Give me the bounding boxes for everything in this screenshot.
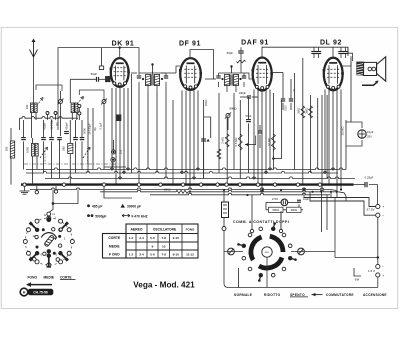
svg-text:10-185pF: 10-185pF xyxy=(50,118,54,130)
svg-text:FONO: FONO xyxy=(186,228,195,232)
svg-text:5-6: 5-6 xyxy=(150,252,155,256)
capacitor x260 xyxy=(258,130,262,132)
wires left verticals extra xyxy=(87,108,89,173)
wire T1 to DF91 grid xyxy=(176,66,180,73)
svg-text:25V: 25V xyxy=(367,135,372,139)
oscillator coil L2 xyxy=(68,144,73,154)
rotary switch S2 accensione xyxy=(262,247,272,257)
svg-text:510: 510 xyxy=(119,149,123,154)
tuning cap C1 dashed arrow xyxy=(40,147,48,158)
svg-text:5000µF: 5000µF xyxy=(95,214,106,218)
svg-text:10-185pF: 10-185pF xyxy=(88,123,92,135)
T1 tuning stub xyxy=(152,65,154,75)
legend 30000pF xyxy=(121,204,125,208)
direction arrow xyxy=(27,284,52,286)
svg-text:1-2: 1-2 xyxy=(129,252,134,256)
svg-text:465 µF: 465 µF xyxy=(92,205,102,209)
switch stem xyxy=(266,257,268,287)
tube DAF91 internal electrodes xyxy=(258,62,266,64)
tube DF91 envelope xyxy=(180,58,201,90)
tone arrow xyxy=(362,83,377,86)
S1 top stem xyxy=(47,212,51,216)
wire 1.5V plus down xyxy=(377,277,379,287)
cell contact circle xyxy=(222,227,226,231)
resistor zigzag x219 xyxy=(217,149,221,159)
svg-text:15.5KΩ: 15.5KΩ xyxy=(341,126,345,135)
svg-text:5000: 5000 xyxy=(286,105,288,111)
svg-text:2 MΩ: 2 MΩ xyxy=(221,137,225,144)
ground bus thick xyxy=(21,183,354,185)
svg-text:1.5 V: 1.5 V xyxy=(368,269,375,273)
svg-text:0.1µF: 0.1µF xyxy=(99,122,103,129)
logo emblem xyxy=(20,288,28,296)
resistor 0.5M volume xyxy=(238,134,242,150)
rail 1 xyxy=(26,168,346,170)
svg-text:50pF: 50pF xyxy=(227,51,234,55)
wires DL92 pins xyxy=(324,90,326,174)
legend MF 470 xyxy=(122,214,130,217)
svg-text:1000: 1000 xyxy=(26,147,30,153)
electrolytic capacitor 10uF 25V xyxy=(346,122,362,128)
svg-text:RIDOTTO: RIDOTTO xyxy=(264,293,281,297)
junction dots lower rails xyxy=(246,194,248,196)
S1 bottom stem xyxy=(47,249,51,253)
S1 inner contacts xyxy=(35,235,38,238)
svg-text:MOD: MOD xyxy=(265,252,270,254)
svg-text:300: 300 xyxy=(5,146,9,151)
wires DK91 pins xyxy=(111,88,113,170)
trimmer arrow L1 xyxy=(37,98,44,107)
S1 rotor wedge xyxy=(44,235,55,247)
tuning cap C2 dashed arrow xyxy=(83,147,90,158)
svg-text:NORMALE: NORMALE xyxy=(234,293,252,297)
osc pin circles xyxy=(78,104,81,107)
svg-text:MEDIE: MEDIE xyxy=(44,275,55,279)
svg-text:300Ω: 300Ω xyxy=(290,208,297,212)
svg-text:Kp: Kp xyxy=(55,122,59,126)
svg-text:5-6: 5-6 xyxy=(150,236,155,240)
tube DF91 internal electrodes xyxy=(187,62,195,64)
resistors right cluster zigzag xyxy=(301,106,305,118)
svg-text:10: 10 xyxy=(162,244,166,248)
svg-text:100pF: 100pF xyxy=(239,91,247,95)
trimmer on osc top xyxy=(102,100,106,104)
antenna A xyxy=(32,39,36,43)
tube DK91 envelope xyxy=(111,58,129,87)
svg-text:1-2: 1-2 xyxy=(129,236,134,240)
svg-text:DL 92: DL 92 xyxy=(320,40,342,47)
svg-text:F 470 KHZ: F 470 KHZ xyxy=(132,214,148,218)
battery cell B xyxy=(222,202,229,218)
svg-text:DAF 91: DAF 91 xyxy=(241,40,269,47)
svg-text:80KΩ: 80KΩ xyxy=(229,107,236,111)
rail 4 xyxy=(30,188,331,190)
resistor 500 xyxy=(269,207,284,212)
wire grid loop xyxy=(36,85,62,91)
tube DAF91 envelope xyxy=(253,58,272,91)
svg-text:2.5V: 2.5V xyxy=(272,197,278,201)
wire oscillator top rail xyxy=(58,48,139,130)
svg-text:SPENTO: SPENTO xyxy=(290,293,305,297)
wire grid drop x101 xyxy=(101,48,103,66)
capacitor row y138 xyxy=(21,137,26,139)
switch feed bracket xyxy=(354,268,361,276)
wires mid verticals xyxy=(138,87,140,185)
lamp wires xyxy=(266,201,281,203)
capacitor 30000pF with triangle xyxy=(201,138,206,140)
svg-text:10 MΩ: 10 MΩ xyxy=(267,138,271,146)
speaker driver xyxy=(364,62,377,75)
battery terminal 1.5V xyxy=(376,264,380,268)
trimmer C3 xyxy=(59,100,63,104)
svg-text:DF 91: DF 91 xyxy=(179,41,201,48)
svg-text:420pF: 420pF xyxy=(43,122,47,130)
phi screw right xyxy=(298,248,305,255)
wire DF91 screen loop xyxy=(190,50,214,80)
svg-text:F ONO: F ONO xyxy=(109,252,120,256)
svg-text:OSCILLATORE: OSCILLATORE xyxy=(153,228,177,232)
wire contact drop xyxy=(238,268,240,288)
svg-text:5000: 5000 xyxy=(83,128,87,134)
gang dash line xyxy=(24,163,120,165)
svg-text:30000 µF: 30000 µF xyxy=(127,205,141,209)
wire battery column down xyxy=(224,231,378,288)
wire DK91 right nub drop xyxy=(131,74,133,173)
blob cap at DK91 pin xyxy=(116,115,121,122)
svg-text:67.5V: 67.5V xyxy=(367,208,375,212)
S1 diagonal arms xyxy=(60,253,66,259)
IF transformer T1 xyxy=(131,72,137,74)
svg-text:7-8: 7-8 xyxy=(162,252,167,256)
wires DAF91 pins xyxy=(253,90,255,179)
osc trimmer arrow xyxy=(77,97,84,105)
svg-text:50pF: 50pF xyxy=(91,72,98,76)
tube DL92 envelope xyxy=(324,58,343,91)
legend 5000pF xyxy=(87,214,90,217)
rail 5 with 16K resistor xyxy=(100,190,176,192)
svg-text:16KΩ: 16KΩ xyxy=(163,188,170,192)
S1 extra contacts xyxy=(33,257,37,261)
oscillator transformer L2 top xyxy=(71,103,74,113)
T2 tuning stub xyxy=(231,67,233,74)
svg-text:CORTE: CORTE xyxy=(108,236,121,240)
svg-text:FONO: FONO xyxy=(28,275,38,279)
S1 wire to circuit xyxy=(52,202,55,205)
capacitor 0.1uF lamp xyxy=(297,199,301,201)
svg-text:9-10: 9-10 xyxy=(173,252,179,256)
resistor 2M zigzag xyxy=(225,134,229,147)
wire DL92 top cap xyxy=(332,47,334,58)
svg-text:COMMUTATORE: COMMUTATORE xyxy=(326,293,354,297)
tube DL92 internal electrodes xyxy=(329,62,337,64)
antenna transformer L1 xyxy=(30,103,33,113)
switch S2 contacts xyxy=(288,256,292,260)
svg-text:MEDIE: MEDIE xyxy=(109,244,120,248)
wire x335 drop xyxy=(331,192,335,258)
wire bus stub to pot xyxy=(104,186,132,198)
svg-text:11-12: 11-12 xyxy=(186,252,194,256)
volume wiper arrow xyxy=(245,136,256,145)
band switch table xyxy=(126,224,198,258)
phi screw left xyxy=(228,248,235,255)
battery terminal 67.5V xyxy=(376,204,380,208)
svg-text:0.5 MΩ: 0.5 MΩ xyxy=(234,138,238,147)
svg-text:AEREO: AEREO xyxy=(130,228,142,232)
svg-text:3-4: 3-4 xyxy=(139,252,144,256)
svg-text:500Ω: 500Ω xyxy=(272,208,279,212)
capacitor 50pF at DAF91 grid xyxy=(240,47,242,50)
svg-text:15KΩ: 15KΩ xyxy=(204,100,208,107)
svg-text:0.25µF: 0.25µF xyxy=(365,176,374,180)
S1 outer contacts xyxy=(70,240,74,244)
svg-text:DK 91: DK 91 xyxy=(112,41,135,48)
svg-text:Kp: Kp xyxy=(93,127,97,131)
svg-text:420pF: 420pF xyxy=(65,122,69,130)
svg-text:−: − xyxy=(382,265,384,269)
svg-text:CH.75-56: CH.75-56 xyxy=(33,291,48,295)
svg-text:9-10: 9-10 xyxy=(173,236,179,240)
coil left edge xyxy=(10,141,14,158)
contact ties top xyxy=(250,229,253,232)
wire under DK91 horizontal xyxy=(104,166,126,168)
wires into switch area xyxy=(251,195,253,229)
svg-text:3-4: 3-4 xyxy=(139,236,144,240)
svg-text:+: + xyxy=(382,205,384,209)
wire DAF91 to DL92 top rail xyxy=(262,47,348,57)
rail 2 xyxy=(26,171,338,173)
capacitor pair at DL92 left xyxy=(313,47,315,51)
bus junction circles xyxy=(23,183,26,186)
svg-text:3MΩ: 3MΩ xyxy=(297,108,301,114)
legend 465pF xyxy=(87,204,90,207)
wires DF91 pins xyxy=(181,91,183,174)
svg-text:H: H xyxy=(23,291,26,295)
svg-text:300: 300 xyxy=(25,104,29,109)
svg-text:10µF: 10µF xyxy=(367,130,374,134)
svg-text:3MΩ: 3MΩ xyxy=(304,108,308,114)
pin circles below bus xyxy=(35,191,38,194)
svg-text:10µF: 10µF xyxy=(303,197,309,201)
rotary switch S1 band selector xyxy=(25,218,72,265)
svg-text:ACCENSIONE: ACCENSIONE xyxy=(363,293,387,297)
wire top loop left xyxy=(20,117,79,119)
cap 420pF osc xyxy=(64,131,69,133)
resistor 10M zigzag xyxy=(272,134,276,150)
capacitor pair 5000pF xyxy=(272,72,283,74)
wire mid shelf xyxy=(335,257,378,259)
rail 3 xyxy=(45,177,355,179)
wire left column xyxy=(10,128,12,185)
svg-text:6/W: 6/W xyxy=(355,279,360,282)
svg-text:−: − xyxy=(382,214,384,218)
wires to 67.5V terminals xyxy=(304,190,376,207)
junction corner x281 xyxy=(273,158,281,160)
svg-text:+: + xyxy=(382,274,384,278)
svg-text:565: 565 xyxy=(62,146,66,151)
wire T2 to DAF91 xyxy=(244,73,253,79)
svg-text:7-8: 7-8 xyxy=(162,236,167,240)
svg-text:9: 9 xyxy=(152,244,154,248)
wire right riser xyxy=(377,217,379,264)
svg-text:CORTE: CORTE xyxy=(60,275,72,279)
resistor 300 xyxy=(287,207,302,212)
speaker cone xyxy=(377,57,386,81)
tube DK91 internal electrodes xyxy=(116,62,124,64)
bus left ground stub xyxy=(24,186,26,191)
svg-text:Vega - Mod. 421: Vega - Mod. 421 xyxy=(133,280,195,289)
wire B+ speaker line xyxy=(350,56,352,122)
output transformer xyxy=(343,62,351,66)
wire DK91 top cap xyxy=(119,48,121,59)
IF transformer T2 xyxy=(205,78,216,80)
rail 6 xyxy=(150,193,330,195)
capacitor pair at DL92 right xyxy=(340,47,342,51)
antenna coil lower L1b xyxy=(31,144,34,157)
